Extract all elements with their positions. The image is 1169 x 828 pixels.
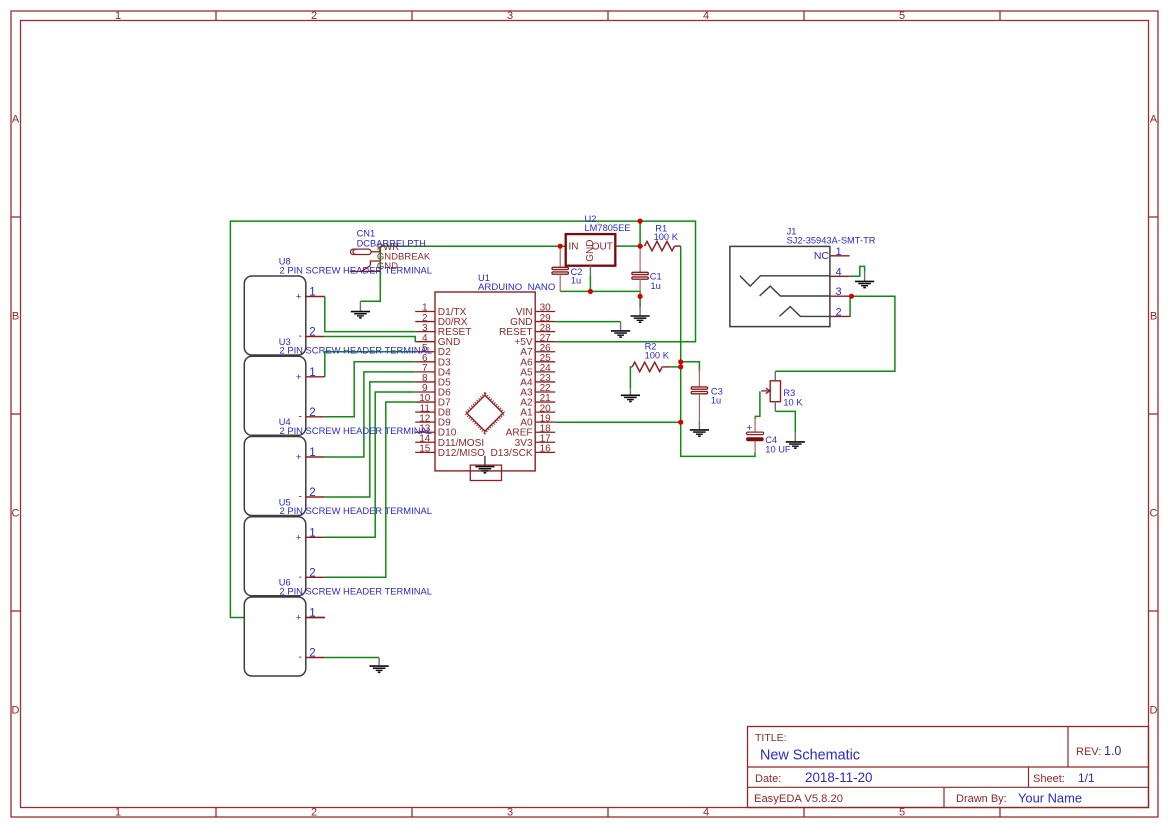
wire U3.2 to U1 pin6 D3 [325, 362, 415, 417]
svg-text:1u: 1u [711, 396, 721, 406]
wire CN1.PWR to U2.IN [380, 245, 565, 247]
wire U5.1 to U1 pin9 D6 [325, 392, 415, 537]
svg-text:-: - [299, 330, 303, 342]
wire CN1.GND down to ground [360, 246, 380, 301]
junction OUT node [638, 244, 643, 249]
connector J1 SJ2-35943A-SMT-TR [730, 246, 830, 326]
screw terminal U8 [244, 276, 305, 355]
svg-text:2: 2 [835, 306, 841, 318]
svg-text:3: 3 [835, 286, 841, 298]
svg-text:3: 3 [507, 807, 513, 819]
ground at U6 pin2 [378, 658, 380, 666]
svg-text:-: - [299, 491, 303, 503]
svg-text:1/1: 1/1 [1078, 771, 1095, 785]
svg-text:16: 16 [540, 444, 552, 455]
screw terminal U6 [244, 597, 305, 676]
svg-text:10 UF: 10 UF [765, 445, 791, 455]
wire rail branch to U2.OUT node [639, 221, 641, 246]
svg-text:D12/MISO: D12/MISO [438, 448, 485, 459]
svg-text:2 PIN SCREW HEADER TERMINAL: 2 PIN SCREW HEADER TERMINAL [280, 425, 432, 436]
capacitor C1 1u [639, 246, 641, 272]
svg-text:-: - [299, 651, 303, 663]
capacitor C3 1u [698, 369, 700, 387]
potentiometer R3 10K [774, 371, 776, 381]
svg-text:100 K: 100 K [654, 232, 679, 242]
junction A0 node [678, 420, 683, 425]
svg-text:3: 3 [507, 10, 513, 22]
svg-text:IN: IN [569, 241, 579, 252]
svg-text:New Schematic: New Schematic [760, 748, 860, 764]
svg-text:TITLE:: TITLE: [755, 732, 787, 744]
screw terminal U5 [244, 517, 305, 596]
capacitor C2 1u [559, 246, 561, 267]
wire +5V rail from U6.1 loop to U1 pin27 [230, 221, 695, 617]
svg-text:Drawn By:: Drawn By: [956, 793, 1007, 805]
svg-text:1: 1 [309, 608, 315, 620]
wire U1 pin19 A0 to divider [555, 421, 681, 423]
svg-text:1: 1 [835, 246, 841, 258]
svg-text:1: 1 [309, 367, 315, 379]
svg-text:5: 5 [899, 10, 905, 22]
wire J1 pin4 to ground [850, 266, 865, 276]
title block [748, 727, 1149, 808]
wire R3 top to J1 pin3 [775, 296, 895, 371]
svg-text:C: C [12, 508, 20, 520]
ground below R2 [629, 389, 631, 395]
junction J1 pin3 [849, 294, 854, 299]
svg-text:-: - [299, 571, 303, 583]
wire divider branch to C3 [681, 362, 700, 371]
wire R1 right down to C4 bottom [681, 246, 755, 456]
svg-text:D13/SCK: D13/SCK [491, 448, 533, 459]
junction R2 node [678, 364, 683, 369]
wire R3 bottom to ground [775, 411, 795, 432]
wire U8.1 to U1 pin3 RESET [325, 297, 415, 332]
svg-text:4: 4 [835, 266, 841, 278]
svg-text:2: 2 [311, 807, 317, 819]
junction rail/OUT [638, 219, 643, 224]
svg-text:100 K: 100 K [645, 350, 670, 360]
ground at U1 pin29 [620, 322, 622, 331]
svg-text:C: C [1150, 508, 1158, 520]
svg-text:2 PIN SCREW HEADER TERMINAL: 2 PIN SCREW HEADER TERMINAL [280, 505, 432, 516]
svg-text:2: 2 [311, 10, 317, 22]
svg-text:LM7805EE: LM7805EE [585, 223, 631, 233]
svg-text:1.0: 1.0 [1104, 744, 1121, 758]
svg-text:D: D [1150, 705, 1158, 717]
ground below C3 [698, 421, 700, 430]
svg-text:A: A [12, 114, 20, 126]
wire U6.2 to ground [325, 657, 379, 659]
svg-text:B: B [1150, 311, 1157, 323]
svg-text:+: + [296, 452, 302, 463]
wire U2.GND stem [589, 276, 591, 292]
svg-text:1: 1 [309, 287, 315, 299]
junction C1 ground [638, 294, 643, 299]
svg-text:+: + [296, 372, 302, 383]
wire R2 left to ground [630, 367, 632, 389]
svg-text:1: 1 [309, 447, 315, 459]
svg-text:+: + [296, 292, 302, 303]
resistor R1 100K [645, 241, 675, 250]
ground at J1 pin4 [864, 271, 866, 281]
U1 ground pad [484, 456, 486, 466]
svg-text:-: - [299, 410, 303, 422]
ground near CN1 [359, 301, 361, 311]
ground below R3 [794, 432, 796, 442]
junction divider top [678, 359, 683, 364]
svg-text:2: 2 [309, 327, 315, 339]
connector CN1 DCBARRELPTH [350, 249, 371, 254]
screw terminal U3 [244, 356, 305, 435]
svg-text:Your Name: Your Name [1018, 791, 1082, 806]
svg-text:ARDUINO_NANO: ARDUINO_NANO [478, 282, 555, 293]
svg-text:1: 1 [115, 807, 121, 819]
wire GND bus C2-U2.GND-C1 [560, 291, 640, 306]
svg-text:+: + [746, 422, 752, 434]
svg-text:Sheet:: Sheet: [1033, 773, 1065, 785]
svg-text:C1: C1 [650, 272, 662, 282]
wire U5.2 to U1 pin10 D7 [325, 402, 415, 577]
svg-text:B: B [12, 311, 19, 323]
svg-text:10 K: 10 K [783, 397, 803, 407]
svg-text:2: 2 [309, 407, 315, 419]
wire U4.2 to U1 pin8 D5 [325, 382, 415, 497]
svg-text:5: 5 [899, 807, 905, 819]
IC U1 ARDUINO_NANO [435, 292, 535, 471]
svg-text:C4: C4 [765, 435, 777, 445]
svg-text:DCBARRELPTH: DCBARRELPTH [357, 238, 426, 248]
svg-text:2 PIN SCREW HEADER TERMINAL: 2 PIN SCREW HEADER TERMINAL [280, 345, 432, 356]
svg-text:+: + [296, 613, 302, 624]
junction GND bus [588, 289, 593, 294]
svg-text:NC: NC [814, 250, 830, 262]
capacitor C4 10UF [754, 416, 756, 432]
wire U2.OUT to R1 [618, 245, 643, 247]
svg-text:Date:: Date: [755, 773, 781, 785]
junction C2/PWR [558, 244, 563, 249]
svg-text:4: 4 [703, 10, 709, 22]
ground below C1 [639, 307, 641, 316]
svg-text:EasyEDA V5.8.20: EasyEDA V5.8.20 [754, 793, 843, 805]
regulator U2 LM7805EE [566, 234, 616, 266]
wire R3 wiper to C4 plus [755, 391, 760, 419]
svg-text:REV:: REV: [1076, 746, 1101, 758]
wire U1 pin29 GND to ground [555, 321, 620, 323]
resistor R2 100K [632, 362, 662, 371]
svg-text:D: D [12, 705, 20, 717]
screw terminal U4 [244, 437, 305, 516]
svg-text:4: 4 [703, 807, 709, 819]
svg-text:GND: GND [585, 240, 596, 262]
wire J1 pin3 to pin2 [849, 296, 851, 316]
svg-text:A: A [1150, 114, 1158, 126]
svg-text:2: 2 [309, 648, 315, 660]
svg-text:2 PIN SCREW HEADER TERMINAL: 2 PIN SCREW HEADER TERMINAL [280, 585, 432, 596]
svg-text:1: 1 [115, 10, 121, 22]
svg-text:1u: 1u [571, 275, 581, 285]
svg-text:+: + [296, 533, 302, 544]
svg-text:1: 1 [309, 527, 315, 539]
svg-text:SJ2-35943A-SMT-TR: SJ2-35943A-SMT-TR [787, 235, 876, 245]
svg-text:2: 2 [309, 567, 315, 579]
svg-text:1u: 1u [651, 281, 661, 291]
svg-text:2018-11-20: 2018-11-20 [805, 770, 873, 785]
svg-text:15: 15 [419, 444, 431, 455]
svg-text:CN1: CN1 [357, 229, 376, 239]
wire U3.1 to U1 pin5 D2 [325, 352, 415, 377]
wire U4.1 to U1 pin7 D4 [325, 372, 415, 457]
wire U8.2 to U1 pin4 GND [325, 337, 415, 342]
svg-text:2: 2 [309, 487, 315, 499]
svg-text:2 PIN SCREW HEADER TERMINAL: 2 PIN SCREW HEADER TERMINAL [280, 264, 432, 275]
